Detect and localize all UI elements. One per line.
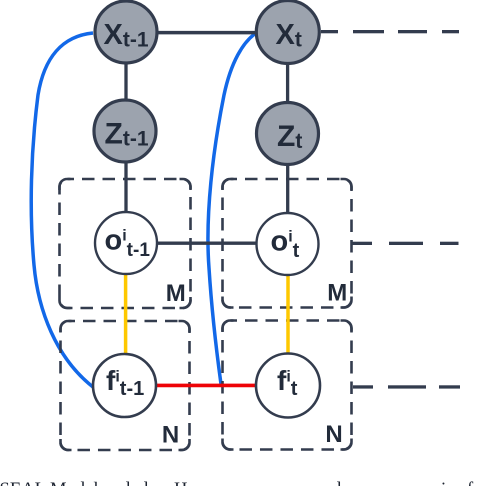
dashed continuation right of o_t: [353, 242, 459, 245]
node f_t-1: [93, 354, 156, 417]
edge o_t to f_t (yellow): [286, 274, 290, 355]
svg-text:for: for: [467, 479, 478, 486]
plate M right: [223, 179, 352, 308]
svg-text:d: d: [139, 479, 149, 486]
svg-text:M: M: [166, 280, 186, 307]
node Z_t: [257, 103, 319, 165]
wire Z_t to o_t: [286, 164, 289, 214]
plate N right: [223, 321, 352, 450]
wire X_t to Z_t: [286, 63, 289, 104]
edge f_t-1 to f_t (red): [155, 384, 257, 388]
plate M left: [60, 179, 191, 308]
node X_t: [256, 1, 319, 64]
edge X_t to f_t (blue curve): [208, 33, 256, 384]
caption (cut off at bottom): [0, 479, 478, 486]
wire X_t-1 to Z_t-1: [124, 62, 127, 102]
edge o_t-1 to f_t-1 (yellow): [124, 273, 128, 355]
wire Z_t-1 to o_t-1: [124, 160, 127, 213]
node o_t: [257, 213, 319, 275]
dashed continuation right of X_t: [321, 30, 459, 33]
svg-text:M: M: [327, 280, 347, 307]
edge X_t-1 to f_t-1 (blue curve): [31, 33, 93, 387]
svg-text:N: N: [162, 422, 179, 449]
node o_t-1: [95, 212, 157, 274]
node f_t: [256, 354, 320, 418]
svg-text:d: d: [332, 479, 342, 486]
node Z_t-1: [94, 100, 156, 162]
plate N left: [61, 321, 190, 450]
wire X_t-1 to X_t: [157, 31, 256, 35]
node X_t-1: [95, 1, 157, 63]
svg-text:H: H: [174, 479, 187, 486]
svg-text:SEAL Model:: SEAL Model:: [0, 479, 104, 486]
svg-text:d: d: [121, 479, 131, 486]
dashed continuation right of f_t: [353, 385, 460, 388]
svg-text:N: N: [325, 421, 342, 448]
svg-text:i: i: [441, 479, 446, 486]
plate corner strokes: [60, 179, 352, 450]
wire o_t-1 to o_t: [156, 242, 257, 245]
